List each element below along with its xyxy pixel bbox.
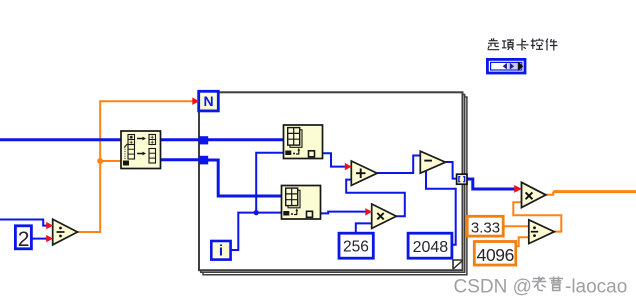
wire: 256 to multiply1 bottom input <box>356 223 372 233</box>
wire: divide2 output to multiply2 bottom input (orange) <box>513 202 561 231</box>
wire: divide1 output to split index and N terminal (orange) <box>77 101 194 232</box>
svg-text:2048: 2048 <box>413 239 449 256</box>
divide node /2 <box>529 220 555 244</box>
constant 4096 <box>474 242 516 266</box>
tab control terminal icon <box>487 59 525 73</box>
svg-text:N: N <box>204 93 214 109</box>
coercion dot: add top input <box>345 163 352 170</box>
constant 3.33 <box>467 216 503 236</box>
tunnel T2 <box>199 156 208 165</box>
svg-text:4096: 4096 <box>477 245 514 265</box>
split 1D array node <box>121 131 161 169</box>
constant 256 <box>339 233 373 258</box>
wire: multiply2 output to right edge (orange array) <box>546 192 636 195</box>
wire: IA1 output to add top input <box>323 153 347 166</box>
svg-text:256: 256 <box>343 239 369 256</box>
for-loop corner fold <box>453 260 463 269</box>
wire: scalar input to divide1 top <box>0 220 47 226</box>
index array IA1 <box>284 125 323 159</box>
divide node /1 <box>53 219 78 245</box>
tab control label <box>488 38 558 50</box>
coercion dot: N terminal <box>192 98 199 105</box>
svg-text:2: 2 <box>18 228 30 251</box>
wire: 4096 to divide2 bottom input (orange) <box>516 237 529 246</box>
constant 2048 <box>408 233 452 258</box>
index array IA2 <box>282 186 321 220</box>
wire: constant 2 to divide1 bottom <box>32 238 47 240</box>
svg-text:CSDN @: CSDN @ <box>454 277 532 298</box>
coercion dot: divide1 bottom input <box>46 235 53 242</box>
wire: iteration i to IA2 index <box>231 213 282 250</box>
svg-text:i: i <box>219 242 223 259</box>
wire: add output to subtract top input <box>377 156 420 174</box>
wire: tunnel T2 to index array IA2 <box>207 160 282 196</box>
wire: tunnel T1 to index array IA1 <box>207 138 284 141</box>
iteration terminal i <box>211 241 230 260</box>
wire: input array 1 (thick blue, left edge) <box>0 138 122 141</box>
for-loop frame <box>199 92 467 274</box>
auto-index output tunnel <box>457 174 467 184</box>
add node <box>351 161 377 185</box>
loop count terminal N <box>199 91 219 111</box>
wire: 2048 to subtract bottom input <box>426 170 456 245</box>
multiply node x1 <box>372 204 397 228</box>
wire: split output 1 to tunnel T1 <box>161 138 201 141</box>
svg-text:3.33: 3.33 <box>471 220 500 237</box>
coercion dot: multiply1 top input <box>365 208 372 215</box>
junction: i wire branch <box>254 210 259 215</box>
junction: orange wire branch <box>97 158 103 164</box>
wire: 3.33 to divide2 top input (orange) <box>503 225 529 227</box>
wire: multiply1 output to add bottom input <box>346 180 405 217</box>
wire: output tunnel to multiply2 top input (thick blue) <box>467 179 515 189</box>
multiply node x2 <box>522 182 546 207</box>
constant 2 <box>15 226 31 251</box>
coercion dot: multiply2 top input <box>514 185 522 193</box>
svg-text:-laocao: -laocao <box>565 277 627 298</box>
coercion dot: divide1 top input <box>46 222 53 229</box>
wire: subtract output to output tunnel <box>445 162 457 179</box>
wire: split output 2 to tunnel T2 <box>161 158 201 161</box>
wire: junction to IA1 index <box>256 153 283 213</box>
subtract node <box>420 151 445 173</box>
wire: IA2 output to multiply1 top input <box>321 212 367 214</box>
tunnel T1 <box>199 136 208 144</box>
watermark <box>454 277 628 298</box>
